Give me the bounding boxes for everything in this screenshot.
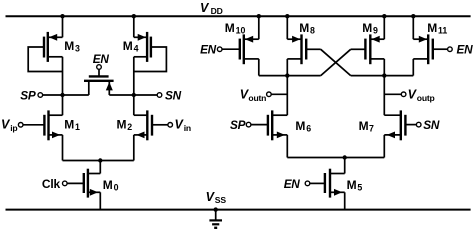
svg-text:outp: outp (417, 93, 435, 103)
wire M1 drain stub (62, 95, 64, 115)
svg-text:11: 11 (438, 26, 447, 36)
junction ground on VSS rail (214, 207, 218, 211)
label M4 (123, 39, 139, 54)
wire node SP row (43, 94, 89, 96)
wire M8 gate lead (306, 48, 321, 50)
wire M2 source to tail (133, 135, 135, 161)
terminal SP (right) (246, 122, 251, 127)
wire M2 drain stub (133, 95, 135, 115)
transistor M4 (PMOS, diode-connected, mirrored) (134, 32, 151, 62)
transistor M5 (NMOS tail EN) (325, 169, 345, 198)
svg-text:in: in (184, 123, 191, 133)
junction M9 drain / M11 drain bus (382, 73, 386, 77)
label M9 (362, 21, 378, 36)
svg-text:5: 5 (357, 183, 362, 193)
junction left tail node (98, 158, 102, 162)
wire node Voutn (271, 93, 287, 95)
svg-text:SN: SN (423, 118, 440, 132)
transistor M3 (PMOS, diode-connected) (44, 32, 63, 62)
terminal EN (M11 gate) (448, 47, 453, 52)
svg-text:3: 3 (75, 43, 80, 53)
svg-text:7: 7 (369, 123, 374, 133)
wire left tail bus (63, 160, 134, 162)
label EN (switch) (93, 52, 110, 66)
junction M9 source on VDD rail (382, 14, 386, 18)
label M6 (295, 119, 311, 134)
svg-text:M: M (295, 119, 305, 133)
wire M8 source stub to VDD (286, 16, 288, 40)
svg-text:V: V (200, 1, 210, 15)
svg-text:SS: SS (215, 195, 227, 205)
svg-text:EN: EN (457, 42, 474, 56)
junction M3 source on VDD rail (60, 14, 64, 18)
transistor M10 (PMOS reset) (240, 34, 259, 64)
label M5 (347, 178, 363, 193)
svg-text:SP: SP (20, 88, 36, 102)
terminal Vip (18, 123, 23, 128)
svg-text:M: M (362, 21, 372, 35)
terminal Voutn (267, 92, 272, 97)
svg-text:outn: outn (248, 93, 266, 103)
transistor M0 (NMOS tail) (84, 169, 101, 198)
label M3 (64, 39, 80, 54)
terminal EN (M5 gate) (305, 181, 310, 186)
label Vip (1, 117, 17, 133)
svg-text:M: M (347, 178, 357, 192)
svg-text:EN: EN (200, 42, 217, 56)
wire M9 drain column to node Voutp and M7 drain (383, 59, 385, 115)
wire M2 gate lead (152, 124, 168, 126)
label M11 (427, 21, 447, 36)
wire node Voutp (384, 93, 401, 95)
VDD label (200, 1, 223, 16)
junction node SP (60, 93, 64, 97)
terminal EN (M10 gate) (217, 47, 239, 52)
VSS label (206, 190, 227, 205)
wire M11 drain to bus (412, 59, 414, 76)
wire M9 gate lead (351, 48, 366, 50)
wire M0 gate lead (67, 182, 83, 184)
wire M9 source stub to VDD (383, 16, 385, 40)
label M7 (359, 119, 374, 134)
svg-text:6: 6 (306, 123, 311, 133)
label EN (M11) (457, 42, 474, 56)
wire M6 gate lead (251, 124, 268, 126)
wire node SN row (109, 94, 157, 96)
svg-text:0: 0 (114, 183, 119, 193)
junction M8 drain / M10 drain bus (285, 73, 289, 77)
wire M10 drain to bus (258, 59, 260, 76)
terminal EN (switch gate) (97, 65, 102, 77)
svg-text:Clk: Clk (42, 177, 61, 191)
svg-text:M: M (225, 21, 235, 35)
terminal Vin (168, 123, 173, 128)
wire M10 source stub to VDD (258, 16, 260, 40)
wire M5 drain stub (344, 158, 346, 174)
terminal Clk (63, 181, 68, 186)
label M0 (103, 178, 119, 193)
label SN (right) (423, 118, 440, 132)
label Clk (42, 177, 61, 191)
transistor EN switch (equalization pass device) (84, 76, 114, 95)
junction M8 source on VDD rail (285, 14, 289, 18)
wire M0 source to VSS (99, 192, 101, 209)
wire M1 source to tail (62, 135, 64, 161)
terminal SN (right) (416, 122, 421, 127)
wire M1 gate lead (23, 124, 44, 126)
svg-text:EN: EN (93, 52, 110, 66)
svg-text:4: 4 (134, 43, 139, 53)
wire M4 drain column to node SN (133, 57, 135, 95)
terminal SN (157, 93, 162, 98)
svg-text:M: M (299, 21, 309, 35)
wire right drain bus (351, 75, 414, 77)
wire M8 drain column to node Voutn and M6 drain (286, 59, 288, 115)
label SP (right) (230, 118, 246, 132)
svg-text:9: 9 (373, 26, 378, 36)
wire cross-couple diagonal M8 gate to M9 drain (321, 49, 351, 75)
junction M11 source on VDD rail (411, 14, 415, 18)
label M10 (225, 21, 246, 36)
svg-text:2: 2 (127, 122, 132, 132)
VSS rail (6, 209, 471, 211)
svg-text:M: M (117, 118, 127, 132)
svg-text:M: M (123, 39, 133, 53)
svg-text:10: 10 (236, 26, 246, 36)
svg-text:M: M (103, 178, 113, 192)
terminal Voutp (401, 92, 406, 97)
junction node SN (132, 93, 136, 97)
VDD rail (6, 15, 471, 17)
label M2 (117, 118, 133, 133)
svg-text:EN: EN (284, 177, 301, 191)
transistor M7 (NMOS input SN, mirrored) (384, 110, 405, 140)
svg-text:M: M (427, 21, 437, 35)
label Voutn (240, 87, 266, 103)
svg-text:8: 8 (310, 26, 315, 36)
wire cross-couple diagonal M9 gate to M8 drain (321, 49, 351, 75)
wire M4 gate-drain diode loop (134, 47, 167, 72)
svg-text:1: 1 (75, 122, 80, 132)
label SN (165, 88, 182, 102)
wire M0 drain stub (99, 161, 101, 174)
svg-text:SP: SP (230, 118, 246, 132)
label EN (M10) (200, 42, 217, 56)
label EN (M5) (284, 177, 301, 191)
svg-text:M: M (359, 119, 369, 133)
wire M7 gate lead (405, 124, 416, 126)
svg-text:M: M (64, 118, 74, 132)
wire M11 source stub to VDD (412, 16, 414, 40)
wire M11 gate lead (433, 48, 448, 50)
transistor M9 (PMOS cross-coupled) (365, 34, 384, 64)
junction M4 source on VDD rail (132, 14, 136, 18)
wire M3 drain column to node SP (62, 57, 64, 95)
wire right tail bus (287, 157, 384, 159)
terminal SP (38, 93, 43, 98)
transistor M11 (PMOS reset, mirrored) (413, 34, 433, 64)
svg-text:ip: ip (10, 123, 17, 133)
label Vin (175, 117, 191, 133)
wire M3 gate-drain diode loop (28, 47, 62, 72)
label SP (20, 88, 36, 102)
wire left drain bus (259, 75, 321, 77)
label M1 (64, 118, 80, 133)
wire M5 gate lead (310, 182, 325, 184)
svg-text:DD: DD (211, 6, 223, 16)
wire M7 source to tail (383, 135, 385, 158)
svg-text:SN: SN (165, 88, 182, 102)
transistor M2 (NMOS input, mirrored) (134, 110, 152, 140)
label M8 (299, 21, 315, 36)
wire M3 source stub to VDD (62, 16, 64, 38)
transistor M8 (PMOS cross-coupled, mirrored) (287, 34, 306, 64)
junction right tail node (343, 155, 347, 159)
transistor M1 (NMOS input) (44, 110, 62, 140)
junction M10 source on VDD rail (257, 14, 261, 18)
wire M5 source to VSS (344, 192, 346, 209)
transistor M6 (NMOS input SP) (268, 110, 287, 140)
wire M4 source stub to VDD (133, 16, 135, 38)
ground (209, 210, 222, 228)
svg-text:M: M (64, 39, 74, 53)
wire M6 source to tail (286, 135, 288, 158)
label Voutp (408, 87, 435, 103)
